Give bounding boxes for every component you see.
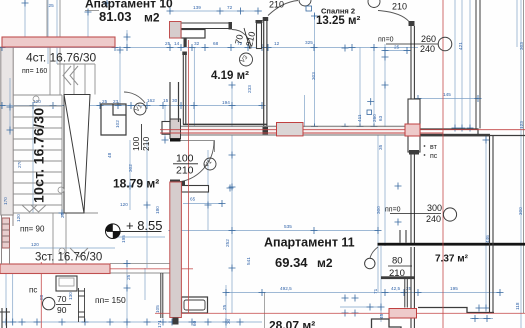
svg-text:м2: м2	[144, 11, 160, 25]
bedroom wall bottom cap	[263, 127, 269, 135]
svg-text:210: 210	[176, 165, 194, 177]
radiator red on band	[277, 123, 304, 136]
svg-text:вт: вт	[430, 144, 438, 151]
svg-text:120: 120	[16, 214, 21, 222]
svg-text:80: 80	[392, 256, 403, 267]
shaft wall pair right	[411, 26, 414, 328]
svg-text:130: 130	[68, 292, 73, 300]
svg-text:105: 105	[155, 305, 160, 313]
svg-text:123: 123	[519, 121, 524, 129]
svg-text:90: 90	[57, 305, 67, 315]
svg-text:233: 233	[247, 85, 252, 93]
svg-text:100: 100	[176, 153, 194, 165]
svg-text:162: 162	[147, 98, 155, 103]
stair arrow chevrons	[22, 205, 46, 212]
svg-text:пс: пс	[430, 153, 438, 160]
svg-text:15: 15	[163, 98, 169, 103]
red grid verticals	[41, 0, 443, 328]
svg-text:71: 71	[373, 288, 378, 294]
svg-text:пп= 160: пп= 160	[22, 68, 47, 75]
interior wall 18.79 room vertical	[170, 82, 179, 122]
wall stub above ap11 wall	[400, 230, 406, 243]
circle 260/240	[438, 37, 452, 51]
WC fixtures	[56, 276, 77, 291]
svg-text:4.19 м²: 4.19 м²	[211, 70, 249, 82]
svg-text:13.25 м²: 13.25 м²	[316, 15, 360, 27]
svg-text:10ст. 16.76/30: 10ст. 16.76/30	[31, 108, 47, 203]
pink wall band top-left	[2, 37, 115, 47]
bath nested rect	[182, 297, 208, 313]
svg-text:303: 303	[311, 72, 316, 80]
flight A risers	[57, 64, 95, 95]
svg-text:252: 252	[225, 239, 230, 247]
rotated door size 100/210	[131, 124, 151, 151]
fraction 80/210	[388, 256, 412, 280]
svg-text:12: 12	[274, 41, 280, 46]
door arc bath	[232, 30, 251, 49]
svg-text:70: 70	[57, 294, 67, 304]
corridor dark line right	[476, 0, 480, 129]
window/door bottom left	[78, 288, 85, 322]
column at wall junction	[170, 119, 181, 139]
svg-text:30: 30	[226, 318, 231, 324]
svg-text:Апартамент 11: Апартамент 11	[264, 236, 355, 250]
door tag V1 second	[204, 158, 216, 170]
bedroom wall vertical	[264, 18, 267, 127]
pink vertical bar	[170, 182, 182, 318]
svg-text:69.34: 69.34	[275, 255, 308, 270]
svg-text:260: 260	[372, 114, 377, 122]
bathroom south wall	[183, 123, 267, 125]
svg-text:25: 25	[165, 41, 171, 46]
svg-text:81.03: 81.03	[99, 9, 132, 24]
svg-text:210: 210	[389, 268, 405, 279]
svg-text:195: 195	[450, 286, 458, 291]
svg-text:240: 240	[426, 214, 441, 224]
pink rect bottom right	[389, 309, 417, 319]
pink wall band lower-left	[0, 264, 110, 274]
svg-text:65: 65	[190, 197, 196, 202]
svg-text:300: 300	[518, 207, 523, 215]
node circles	[33, 96, 39, 102]
circle 300/240	[443, 208, 456, 221]
stair side wall band left	[1, 47, 13, 215]
svg-text:68: 68	[213, 41, 219, 46]
svg-text:170: 170	[3, 197, 8, 205]
svg-text:100: 100	[131, 137, 141, 151]
thick black separation wall apartment 11	[378, 243, 525, 246]
svg-text:+ 8.55: + 8.55	[126, 218, 163, 233]
fraction 300/240	[385, 203, 442, 224]
stair landing wedge	[64, 95, 90, 214]
svg-text:302: 302	[128, 164, 133, 172]
red fill at shaft crossing	[405, 124, 420, 136]
svg-text:60: 60	[192, 320, 197, 326]
svg-text:325: 325	[305, 40, 313, 45]
shaft opening	[408, 99, 420, 152]
svg-text:180: 180	[155, 206, 160, 214]
svg-text:пп=0: пп=0	[378, 37, 394, 44]
svg-text:72: 72	[227, 5, 233, 10]
svg-text:171: 171	[157, 320, 162, 328]
door leaf bath	[257, 23, 262, 49]
svg-text:240: 240	[420, 44, 435, 54]
svg-text:492,5: 492,5	[280, 286, 292, 291]
svg-text:300: 300	[376, 206, 381, 214]
vt/ps room top wall	[415, 134, 490, 137]
svg-text:42,5: 42,5	[391, 286, 401, 291]
door jamb 80/210	[381, 276, 415, 279]
elevation marker	[106, 224, 121, 239]
svg-text:м2: м2	[317, 256, 333, 270]
rotated door size 70/210	[233, 28, 257, 49]
door arc 80/210	[370, 247, 378, 259]
top edge circles	[299, 0, 311, 6]
door arc hall (V1 top)	[124, 92, 145, 103]
door tag V3	[240, 53, 253, 66]
pink kitchen column	[170, 22, 182, 39]
svg-text:пс: пс	[29, 286, 37, 295]
stair treads upper flight	[13, 95, 62, 205]
svg-text:139: 139	[193, 5, 201, 10]
window in left wall	[2, 218, 10, 248]
page edge line right	[523, 0, 525, 313]
svg-text:пп=0: пп=0	[385, 207, 401, 214]
svg-text:210: 210	[141, 137, 151, 151]
svg-text:411: 411	[357, 114, 362, 122]
svg-text:102: 102	[115, 120, 120, 128]
fraction 260/240	[378, 34, 438, 54]
svg-text:120: 120	[31, 242, 39, 247]
svg-text:70: 70	[233, 34, 245, 46]
dots near vt	[424, 145, 426, 147]
svg-text:25: 25	[49, 3, 55, 8]
svg-text:4ст. 16.76/30: 4ст. 16.76/30	[26, 51, 97, 65]
svg-text:35: 35	[378, 144, 383, 150]
svg-text:25: 25	[394, 45, 400, 50]
svg-text:194: 194	[222, 100, 230, 105]
duct block near stairs	[101, 104, 126, 135]
stair stringer	[61, 95, 63, 213]
thin partition lines	[47, 0, 170, 273]
svg-text:145: 145	[443, 92, 451, 97]
shelf next to pink bar	[182, 186, 209, 193]
svg-text:120: 120	[120, 202, 128, 207]
svg-text:14: 14	[174, 41, 180, 46]
vt/ps room right wall	[490, 136, 494, 313]
svg-text:300: 300	[427, 203, 442, 213]
svg-text:3ст. 16.76/30: 3ст. 16.76/30	[35, 252, 102, 264]
fraction 70/90	[56, 294, 71, 315]
wall band right of shaft	[420, 129, 525, 136]
svg-text:пп= 150: пп= 150	[95, 295, 126, 305]
svg-text:30: 30	[172, 98, 178, 103]
svg-text:210: 210	[392, 2, 407, 12]
svg-text:541: 541	[246, 257, 251, 265]
red grid horizontals	[0, 269, 525, 314]
svg-text:25: 25	[222, 304, 227, 310]
svg-text:63: 63	[378, 115, 383, 121]
bottom right step	[418, 308, 494, 313]
bottom step lower	[372, 319, 402, 328]
bedroom door arc	[268, 1, 298, 16]
corner element bottom-left	[0, 308, 10, 328]
svg-text:303: 303	[519, 42, 524, 50]
svg-text:48: 48	[107, 152, 112, 158]
door arc 100/210	[176, 141, 214, 182]
wall band horizontal middle (grey core)	[181, 127, 418, 135]
svg-text:32: 32	[194, 41, 200, 46]
WC partition bottom middle	[161, 273, 163, 318]
svg-text:421: 421	[458, 42, 463, 50]
svg-text:18.79 м²: 18.79 м²	[113, 177, 159, 191]
svg-text:28.07 м²: 28.07 м²	[269, 319, 315, 328]
svg-text:195: 195	[121, 235, 126, 243]
svg-text:260: 260	[421, 34, 436, 44]
svg-text:535: 535	[284, 224, 292, 229]
svg-text:23: 23	[113, 99, 119, 104]
svg-text:45: 45	[379, 313, 384, 319]
grid line below ap11	[264, 292, 266, 328]
svg-text:25: 25	[102, 99, 108, 104]
kitchen wall + cabinet top-centre	[181, 23, 229, 29]
svg-text:118: 118	[515, 302, 520, 310]
svg-text:пп= 90: пп= 90	[20, 225, 45, 234]
door tag V1	[134, 103, 146, 115]
fraction 100/210	[173, 153, 198, 177]
svg-text:210: 210	[269, 0, 284, 10]
red wall edges of band	[160, 130, 525, 133]
door arc right top	[378, 11, 409, 22]
svg-text:25: 25	[126, 274, 131, 280]
svg-text:7.37 м²: 7.37 м²	[435, 254, 469, 265]
